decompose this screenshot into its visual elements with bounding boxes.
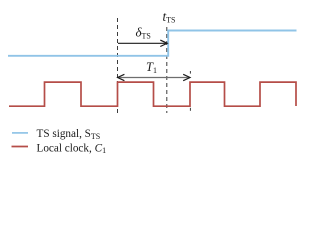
dashed marker line at first clock edge bbox=[117, 18, 119, 113]
svg-text:Local clock, C1: Local clock, C1 bbox=[37, 142, 107, 155]
legend swatch: local clock (red) bbox=[12, 146, 29, 148]
svg-text:TS signal, STS: TS signal, STS bbox=[37, 128, 101, 141]
svg-text:tTS: tTS bbox=[163, 9, 176, 25]
dashed tick below clock trace at x=190 bbox=[189, 108, 191, 111]
svg-text:T1: T1 bbox=[146, 60, 157, 75]
dashed tick above T1 right arrowhead at x=190 bbox=[189, 71, 191, 74]
dashed marker line at TS event t_TS bbox=[166, 27, 168, 113]
TS signal trace (blue step waveform) bbox=[8, 31, 297, 56]
delta_TS arrow (offset between clock edge and TS event) bbox=[118, 40, 167, 46]
svg-text:δTS: δTS bbox=[136, 24, 151, 40]
T1 period double arrow bbox=[118, 74, 190, 80]
local clock trace (red square wave) bbox=[9, 82, 296, 106]
legend swatch: TS signal (blue) bbox=[12, 132, 28, 134]
